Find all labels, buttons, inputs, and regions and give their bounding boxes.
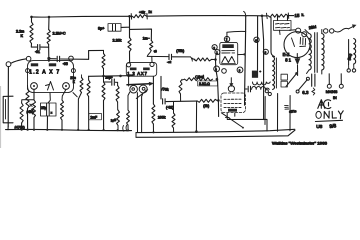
svg-text:6.3: 6.3 [302,90,309,95]
wire rail left drop [88,76,90,80]
wire bus to filter can [277,16,279,21]
svg-text:U8: U8 [316,124,322,130]
wire coupling riser [89,50,104,59]
wire B+ drop to can [257,16,259,70]
valve V4 anode marks [292,38,306,47]
resistor R input 25k [26,89,29,109]
valve V3 pin 8b circle [254,37,259,42]
svg-text:k.: k. [302,13,305,17]
speaker box terminals [227,113,235,118]
mains terminal L [327,84,331,88]
transformer PT winding [273,57,275,90]
capacitor C .01 [38,45,40,50]
speaker coil terminals [348,65,350,70]
node 330 left [181,79,185,80]
svg-text:2θM: 2θM [308,24,316,30]
svg-text:25μ+: 25μ+ [105,76,113,80]
transformer OT secondary winding [322,34,324,71]
node L1 dots [152,131,154,133]
wire V1 grid to input [11,59,26,64]
wire R2 bottom drop [48,45,50,58]
svg-text:3.3Ω.Ω: 3.3Ω.Ω [199,82,210,86]
resistor R cathode-2 [33,100,36,118]
node rail dot 3 [127,75,130,78]
heater tap symbol [281,74,287,80]
wire mains N [340,74,342,85]
valve V2 heater tag right [143,68,150,71]
wire speaker squiggle [334,28,349,32]
AC symbol A [318,100,325,109]
svg-text:εℓTΙc: εℓTΙc [289,109,297,114]
valve V3 EL84 outline [220,42,238,64]
capacitor mains bars [312,74,315,86]
svg-text:·01: ·01 [35,50,40,54]
wire PSU drop 1 [277,94,279,132]
resistor R feedback 153 [152,104,155,124]
valve V1 pin top-left [26,56,31,61]
label 330R box [198,81,218,86]
resistor R3 220k plate [128,38,131,52]
solder x-marks [30,104,34,111]
wire heater drop [271,18,275,57]
valve V1 side pin left [26,69,30,73]
svg-text:√70k: √70k [161,87,169,92]
capacitor C 8uF [108,24,121,32]
svg-text:25μ: 25μ [41,106,47,110]
wire V1 pin drop left [33,89,35,100]
node 330 right [216,78,219,81]
potentiometer VR1 volume [130,85,138,93]
svg-text:8μ+: 8μ+ [98,27,105,31]
resistor R 75k grid-stop [194,58,212,61]
valve V4 top pin right [302,32,307,37]
svg-text:9/8: 9/8 [329,123,337,130]
resistor R rail mid [102,82,105,101]
resistor R 4.7k [61,100,64,120]
scan smudge left edge [0,86,1,148]
wire filter can to rectifier [280,30,296,35]
svg-text:15: 15 [295,13,300,18]
wire HT+ top bus [32,15,132,18]
wire pin7 to screen rail [227,31,246,41]
valve V4 EZ81 envelope [284,32,310,58]
valve V1 pin circle bottom-right [63,83,70,90]
svg-text:E-Z: E-Z [283,52,290,57]
capacitor filter can 4u+4u box [274,21,292,31]
inductor heater coil row 2 [252,87,270,90]
transformer OT primary winding [309,34,311,71]
wire heater rail y76 [89,75,133,78]
svg-text:9: 9 [239,68,241,72]
valve V3 heater zigzag [222,57,235,63]
valve V1 heater tag left [31,63,38,66]
wire anode vertical [245,16,246,95]
svg-text:K: K [21,34,24,38]
svg-text:K: K [73,80,76,84]
node junction E [261,15,264,18]
speaker terminal circles [324,29,328,33]
svg-text:(8Ω): (8Ω) [347,53,353,60]
valve V3 label block [222,44,234,48]
resistor R plate-b [87,80,90,97]
resistor R tail [116,86,119,103]
wire V1 center pin drop [48,93,50,103]
svg-text:8: 8 [255,38,257,42]
capacitor C coupling mid [147,55,168,57]
decorative arcs near bus [123,125,127,131]
wire R1 bottom to grid node [31,44,36,48]
svg-text:(75k): (75k) [176,49,184,53]
svg-text:(1k): (1k) [203,104,209,108]
node feedback join [195,130,198,133]
svg-text:IN: IN [333,96,337,100]
valve V2 heater tag left [130,68,137,71]
capacitor C .05 coupling [51,58,57,60]
resistor R5 1M [150,40,153,50]
wire screen drop [262,16,264,120]
resistor R pot1 to bus [128,92,130,110]
svg-text:Watkins "Westminster" 1966: Watkins "Westminster" 1966 [272,141,328,146]
capacitor C 25uF bypass [104,81,111,83]
valve V3 pin dot [222,69,227,74]
box 1mF label [89,113,102,119]
wire grid into valve V1 [48,60,50,62]
capacitor C can electrolytic [252,71,258,78]
resistor R 470k vert [179,82,182,95]
wire PT tail [264,97,266,125]
wire rail to pot1 [128,76,130,86]
wire ground bus [6,129,132,130]
resistor R 100k [172,113,175,128]
wire pot feed bar [127,84,150,85]
svg-text:·05: ·05 [63,62,68,66]
wire PSU drop 2 [289,96,291,131]
node mid junction [191,58,193,60]
wire anode end [244,95,246,105]
valve V3 pin 1 circle [215,50,220,55]
svg-text:+6k: +6k [139,10,145,14]
wire 8uF to junction C [121,26,130,28]
wire input to ground bus [7,126,9,130]
wire L1-L2 left join [135,133,137,138]
wire EL84 to anode line [238,53,245,55]
wire pot drops [136,93,138,133]
jewel lamp circle [228,86,234,92]
svg-text:2: 2 [213,46,215,50]
capacitor C .02 [163,99,166,104]
node junction C [128,15,131,18]
underline ONLY [315,120,342,121]
valve V3 pin 7 circle [224,36,229,41]
valve V3 pin 3 circle [214,66,220,72]
resistor R2 2.2M [47,30,50,45]
svg-text:1.2 AX7: 1.2 AX7 [127,71,147,76]
AC symbol C [324,100,331,109]
potentiometer VR2 tone [139,85,147,93]
valve V2 pin top-right [150,62,154,66]
svg-text:3: 3 [215,68,217,72]
wire pot wiper arrow [136,90,147,98]
input jack tip circle [6,62,11,67]
wire V2 anode drop right [160,76,162,99]
resistor R 470k cathode [20,103,23,123]
heater tap arrow [286,74,297,87]
wire input drop [7,67,9,127]
speaker box inner dashes [224,98,242,100]
valve V3 pin 9 circle [237,67,243,73]
fuse stack marks [285,105,289,109]
resistor R plate-a 220K [80,78,83,93]
svg-text:8: 8 [265,50,267,54]
resistor R1 2.2M grid [30,22,33,44]
speaker arrow [349,26,354,29]
node grid blob [47,57,50,60]
node top-left junction A [30,16,33,19]
resistor R 330R [185,78,213,81]
node rail dot 1 [102,75,105,78]
resistor R 15k at bus right end [268,14,288,17]
node rail dot 2 [119,75,122,78]
label ONLY hand-drawn [316,111,321,118]
resistor R 1k row [197,99,218,102]
svg-text:1μ8: 1μ8 [110,118,116,123]
svg-text:φ): φ) [154,49,157,53]
svg-text:2.2M+C: 2.2M+C [53,32,66,36]
wire branch to 1M resistor [130,29,152,40]
transformer OT core [315,33,318,73]
valve V4 top pin left [296,28,301,33]
jewel lamp arrow [230,78,232,85]
svg-text:8 1: 8 1 [285,58,291,63]
svg-text:1m~: 1m~ [143,36,150,40]
switch S1 mains [298,80,307,91]
wire V2 pin stub [151,57,153,63]
wire box corner diag [221,113,243,128]
diode arrow HT [296,54,298,59]
speaker box solid tag [228,109,237,112]
wire feedback line L2 [136,130,295,137]
wire 1k left drop [195,101,197,132]
svg-text:MAINS: MAINS [326,90,338,94]
wire feedback line L1 [136,129,295,132]
coil terminal circles [265,90,268,93]
valve V1 pin circle bottom-left [31,83,38,90]
node 1k right [217,99,220,102]
speaker box dashed outline [221,93,246,113]
wire junction C drop [129,16,131,37]
inductor speaker coil [354,39,356,65]
resistor R 1k mid [102,54,105,69]
svg-text:1: 1 [216,51,218,55]
valve V1 side pin right [71,69,75,73]
mains terminal N [339,84,343,88]
valve V2 12AX7 base outline [126,62,156,76]
valve V1 heater tag right [49,63,56,66]
wire mains L [328,74,330,85]
svg-text:×: × [51,111,53,115]
wire speaker-box link [227,117,267,131]
svg-text:(·02): (·02) [166,106,173,110]
input jack socket [3,96,13,123]
wire V1 pin-right link [73,93,77,97]
capacitor C heater bars [248,86,250,92]
svg-text:·ο2: ·ο2 [167,60,172,64]
valve V3 pin 8 circle [263,49,268,54]
svg-text:1κ: 1κ [148,10,152,14]
node bus dots [77,129,79,131]
node EL84 grid [214,58,217,61]
node junction B [48,16,51,19]
wire pot feed arrowhead [149,82,154,86]
valve V1 cathode lambda mark [46,82,54,91]
valve V2 pin top-left [127,63,131,67]
resistor R tail-2 [117,110,120,126]
inductor heater coil row 1 [253,82,271,85]
wire EL84 cathode drop [216,60,219,117]
valve V1 12AX7 base outline [28,61,74,93]
wire 25uF to bus [46,116,48,130]
svg-text:2.20k: 2.20k [113,39,122,43]
wire V2 anode drop left [152,76,154,104]
svg-text:1.2 A X 7: 1.2 A X 7 [29,70,60,76]
resistor R-smoothing 4.6k on HT bus [132,15,147,18]
svg-text:1mF: 1mF [90,115,97,119]
capacitor C 25uF electrolytic box [41,103,57,116]
svg-text:100k: 100k [158,115,166,119]
valve V3 pin 2 circle [212,45,217,50]
valve V3 grid lines [222,51,235,53]
valve V1 pin top-right [69,56,74,61]
